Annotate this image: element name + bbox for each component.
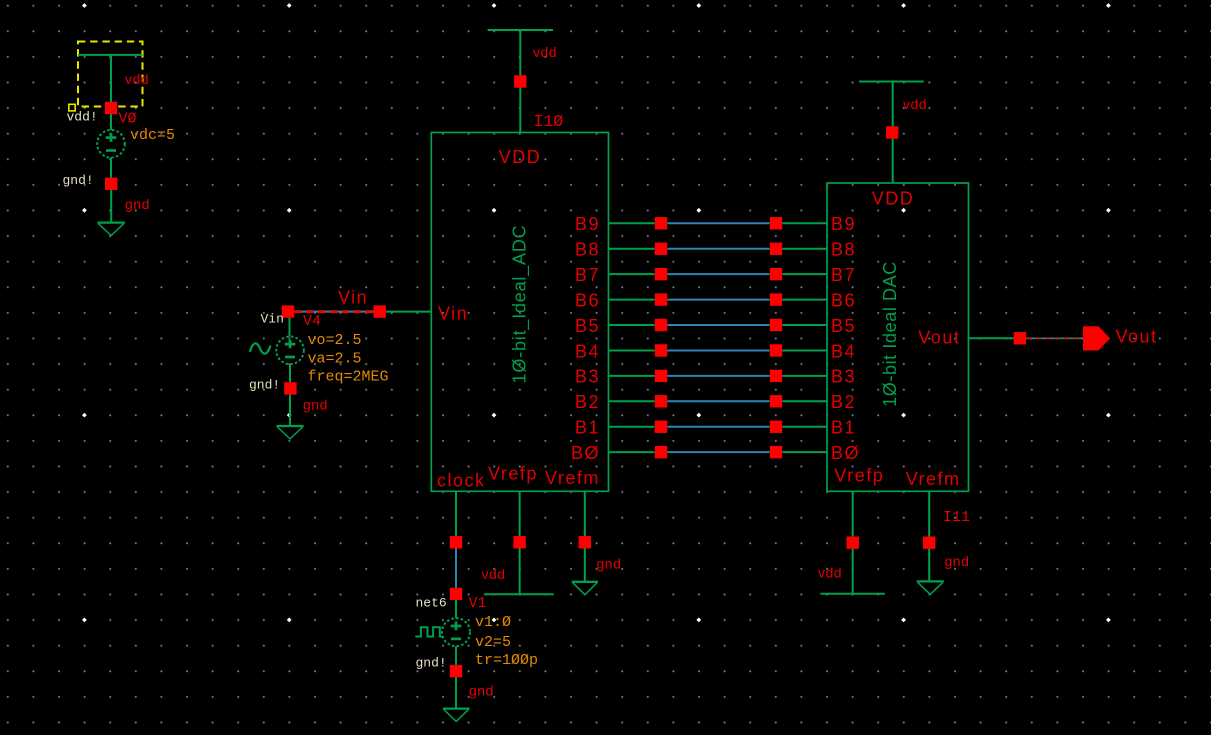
pulse symbol	[415, 627, 442, 636]
svg-text:gnd!: gnd!	[249, 378, 280, 393]
wire B1 DAC stub	[782, 426, 827, 428]
wire B8 ADC stub	[609, 248, 655, 250]
svg-text:B1: B1	[575, 418, 600, 438]
pin square B1 right	[770, 421, 782, 433]
wire B6 ADC stub	[609, 299, 655, 301]
ADC block U-I10 outline	[431, 133, 608, 492]
wire B1 ADC stub	[609, 426, 655, 428]
wire Vrefp DAC stub	[852, 491, 854, 536]
svg-text:B9: B9	[575, 214, 600, 234]
pin square Vrefm DAC	[923, 537, 935, 549]
pin square B9 left	[655, 217, 667, 229]
wire B2 DAC stub	[782, 400, 827, 402]
svg-text:vdd: vdd	[818, 565, 842, 581]
wire B5 DAC stub	[782, 324, 827, 326]
svg-text:gnd: gnd	[303, 397, 328, 413]
wire B4 DAC stub	[782, 349, 827, 351]
pin square B8 right	[770, 243, 782, 255]
wire	[289, 364, 291, 382]
svg-text:net6: net6	[416, 596, 447, 611]
vdd supply symbol (V0)	[78, 54, 142, 56]
svg-text:B4: B4	[831, 341, 856, 361]
svg-text:vdd: vdd	[482, 566, 506, 582]
svg-text:gnd!: gnd!	[63, 173, 94, 188]
wire B0 DAC stub	[782, 451, 827, 453]
vdd supply symbol (ADC Vrefp)	[484, 593, 554, 595]
svg-text:va=2.5: va=2.5	[308, 351, 362, 368]
svg-text:B3: B3	[575, 367, 600, 387]
svg-text:B7: B7	[831, 265, 856, 285]
svg-text:vdd: vdd	[533, 44, 557, 60]
svg-text:V1: V1	[469, 595, 487, 612]
wire B6 bus (blue)	[667, 299, 769, 301]
wire	[584, 548, 586, 581]
node gnd! pin square	[105, 178, 117, 190]
selection box (yellow dashed)	[78, 42, 143, 107]
pin square B3 right	[770, 370, 782, 382]
svg-text:B7: B7	[575, 265, 600, 285]
pin square B8 left	[655, 243, 667, 255]
voltage source V0	[97, 130, 125, 158]
svg-text:B6: B6	[831, 290, 856, 310]
wire B3 ADC stub	[609, 375, 655, 377]
pin square vdd/ADC	[514, 75, 526, 87]
wire	[110, 158, 112, 178]
svg-text:1Ø-bit_Ideal_ADC: 1Ø-bit_Ideal_ADC	[510, 225, 531, 384]
svg-text:B2: B2	[575, 392, 600, 412]
wire net6 (blue)	[455, 548, 457, 587]
wire B0 ADC stub	[609, 451, 655, 453]
svg-text:BØ: BØ	[831, 443, 860, 463]
pin square B9 right	[770, 217, 782, 229]
wire B8 bus (blue)	[667, 248, 769, 250]
svg-text:Vout: Vout	[1116, 327, 1158, 347]
pin square vdd/DAC	[886, 126, 898, 138]
svg-text:vo=2.5: vo=2.5	[308, 332, 362, 349]
svg-text:Vrefm: Vrefm	[545, 468, 600, 488]
pin square Vrefp DAC	[847, 537, 859, 549]
pin square B0 right	[770, 446, 782, 458]
wire Vout stub	[969, 337, 1014, 339]
svg-text:Vrefp: Vrefp	[834, 466, 884, 486]
svg-text:gnd: gnd	[125, 196, 150, 212]
selection handle	[69, 104, 75, 111]
wire	[110, 114, 112, 130]
pin square B7 right	[770, 268, 782, 280]
wire	[289, 318, 291, 337]
svg-text:Vin: Vin	[261, 312, 284, 327]
svg-text:B8: B8	[575, 240, 600, 260]
voltage source V4 (sine)	[276, 337, 304, 365]
wire Vrefp ADC stub	[519, 491, 521, 536]
wire B9 bus (blue)	[667, 222, 769, 224]
pin square Vin mid	[374, 305, 386, 317]
pin square B5 right	[770, 319, 782, 331]
svg-text:B2: B2	[831, 392, 856, 412]
wire B7 DAC stub	[782, 273, 827, 275]
pin square B5 left	[655, 319, 667, 331]
svg-text:Vin: Vin	[438, 304, 468, 324]
svg-text:v1:Ø: v1:Ø	[475, 614, 511, 631]
pin square B6 left	[655, 293, 667, 305]
voltage source V1 (pulse)	[442, 618, 470, 646]
svg-text:VDD: VDD	[872, 189, 915, 209]
wire	[455, 600, 457, 618]
pin square net6	[450, 588, 462, 600]
vdd supply symbol (DAC)	[859, 81, 924, 83]
wire	[928, 549, 930, 582]
wire B4 bus (blue)	[667, 349, 769, 351]
ground symbol V4	[276, 425, 303, 427]
wire Vrefm ADC stub	[584, 491, 586, 536]
wire B7 ADC stub	[609, 273, 655, 275]
svg-text:vdd: vdd	[903, 96, 927, 112]
wire	[289, 395, 291, 426]
sine symbol	[250, 343, 271, 353]
svg-text:B6: B6	[575, 290, 600, 310]
svg-text:V4: V4	[303, 313, 321, 330]
svg-text:tr=1ØØp: tr=1ØØp	[475, 652, 538, 669]
svg-text:Vin: Vin	[338, 288, 368, 308]
wire B2 ADC stub	[609, 400, 655, 402]
pin square B1 left	[655, 421, 667, 433]
wire Vout (dashed)	[1026, 337, 1083, 339]
pin square B3 left	[655, 370, 667, 382]
svg-text:VDD: VDD	[499, 147, 542, 167]
svg-text:gnd: gnd	[469, 683, 494, 699]
svg-text:I11: I11	[943, 509, 970, 526]
wire Vin (selected, dashed)	[294, 311, 373, 313]
wire	[455, 677, 457, 708]
svg-text:Vout: Vout	[918, 328, 960, 348]
wire Vrefm DAC stub	[928, 491, 930, 536]
wire B9 DAC stub	[782, 222, 827, 224]
svg-text:Vrefp: Vrefp	[488, 464, 538, 484]
pin square B0 left	[655, 446, 667, 458]
svg-text:B5: B5	[831, 316, 856, 336]
ground symbol V0	[97, 221, 125, 223]
pin square Vrefm ADC	[579, 536, 591, 548]
svg-text:Vrefm: Vrefm	[906, 469, 961, 489]
svg-text:VØ: VØ	[119, 111, 137, 128]
svg-text:B1: B1	[831, 418, 856, 438]
pin square Vrefp ADC	[513, 536, 525, 548]
svg-text:B8: B8	[831, 240, 856, 260]
node vdd! pin square	[105, 102, 117, 114]
pin square gnd! V4	[284, 382, 296, 394]
svg-text:vdd: vdd	[125, 71, 149, 87]
wire B7 bus (blue)	[667, 273, 769, 275]
svg-text:B4: B4	[575, 341, 600, 361]
DAC block I11 outline	[827, 183, 969, 491]
svg-text:BØ: BØ	[571, 443, 600, 463]
wire B3 DAC stub	[782, 375, 827, 377]
wire B9 ADC stub	[609, 222, 655, 224]
wire B1 bus (blue)	[667, 426, 769, 428]
svg-text:freq=2MEG: freq=2MEG	[308, 369, 389, 386]
wire	[110, 190, 112, 223]
svg-text:vdc=5: vdc=5	[130, 127, 175, 144]
pin square Vout	[1014, 332, 1026, 344]
pin square B2 left	[655, 395, 667, 407]
vdd supply symbol (DAC Vrefp)	[820, 593, 885, 595]
svg-text:gnd: gnd	[597, 556, 622, 572]
ground symbol V1	[443, 707, 470, 709]
pin square B4 right	[770, 344, 782, 356]
pin square B7 left	[655, 268, 667, 280]
wire clock stub	[455, 491, 457, 536]
pin square V4 top	[282, 305, 294, 317]
wire B6 DAC stub	[782, 299, 827, 301]
wire B2 bus (blue)	[667, 400, 769, 402]
pin square B2 right	[770, 395, 782, 407]
svg-text:I1Ø: I1Ø	[534, 112, 564, 131]
grid major dots	[82, 3, 1111, 622]
pin square B4 left	[655, 344, 667, 356]
pin square clock	[450, 536, 462, 548]
wire B5 ADC stub	[609, 324, 655, 326]
wire B8 DAC stub	[782, 248, 827, 250]
output pin Vout	[1083, 326, 1110, 350]
svg-text:clock: clock	[437, 471, 486, 491]
wire	[455, 646, 457, 665]
wire	[519, 548, 521, 594]
ground symbol ADC Vrefm	[572, 581, 598, 583]
wire B0 bus (blue)	[667, 451, 769, 453]
ground symbol DAC Vrefm	[917, 580, 944, 582]
svg-text:1Ø-bit Ideal DAC: 1Ø-bit Ideal DAC	[880, 261, 900, 407]
wire	[852, 549, 854, 594]
svg-text:B5: B5	[575, 316, 600, 336]
svg-text:gnd!: gnd!	[416, 656, 447, 671]
svg-text:B9: B9	[831, 214, 856, 234]
svg-text:B3: B3	[831, 367, 856, 387]
svg-text:vdd!: vdd!	[67, 110, 98, 125]
wire B3 bus (blue)	[667, 375, 769, 377]
pin square B6 right	[770, 293, 782, 305]
svg-text:v2=5: v2=5	[475, 634, 511, 651]
wire Vin to ADC	[386, 311, 431, 313]
vdd supply symbol (I10 net)	[488, 29, 553, 31]
pin square gnd! V1	[450, 665, 462, 677]
svg-text:gnd: gnd	[945, 553, 970, 569]
wire B4 ADC stub	[609, 349, 655, 351]
wire B5 bus (blue)	[667, 324, 769, 326]
